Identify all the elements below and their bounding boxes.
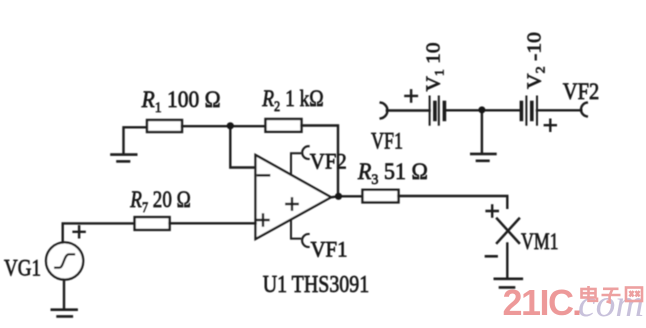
- svg-text:VM1: VM1: [521, 229, 559, 254]
- svg-text:R1 100 Ω: R1 100 Ω: [141, 87, 221, 116]
- svg-text:VF2: VF2: [310, 149, 347, 174]
- svg-text:U1 THS3091: U1 THS3091: [263, 272, 370, 298]
- svg-text:21IC: 21IC: [503, 282, 575, 323]
- svg-text:V2 -10: V2 -10: [524, 32, 548, 89]
- svg-text:VG1: VG1: [4, 256, 41, 281]
- svg-text:R7 20 Ω: R7 20 Ω: [129, 187, 190, 216]
- svg-text:V1 10: V1 10: [423, 43, 447, 92]
- svg-text:VF1: VF1: [371, 129, 403, 154]
- svg-text:R3 51 Ω: R3 51 Ω: [357, 159, 428, 188]
- svg-text:VF1: VF1: [311, 237, 348, 262]
- svg-text:VF2: VF2: [563, 79, 600, 104]
- svg-text:R2 1 kΩ: R2 1 kΩ: [261, 86, 323, 115]
